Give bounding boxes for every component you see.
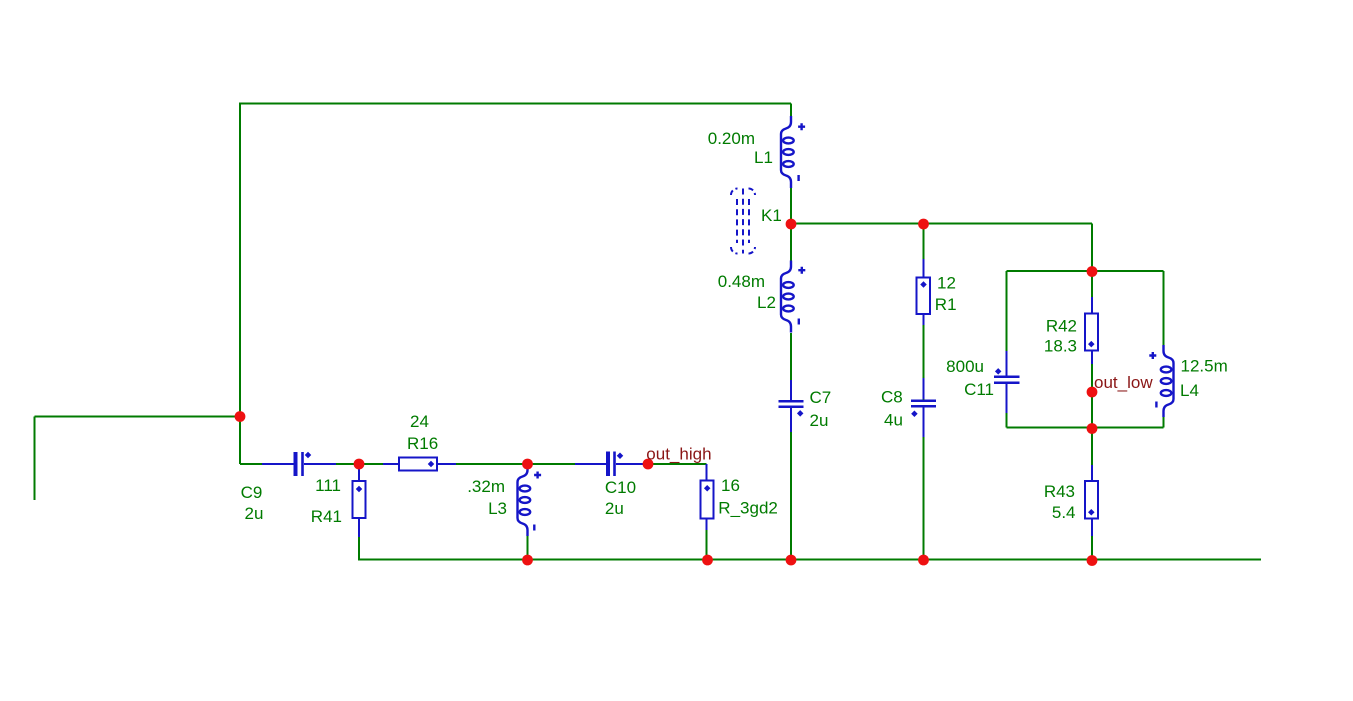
capacitor C8 pins — [923, 378, 925, 399]
wire R1 to C8 — [923, 314, 925, 400]
junction node box bottom — [1087, 423, 1098, 434]
resistor R16 — [399, 458, 437, 471]
svg-text:C8: C8 — [881, 388, 903, 407]
coupling K1 — [731, 189, 755, 254]
capacitor C11 pins — [1006, 351, 1008, 376]
resistor R_3gd2 — [701, 481, 714, 519]
svg-text:C7: C7 — [810, 388, 832, 407]
wire L3 top — [527, 464, 529, 469]
svg-text:18.3: 18.3 — [1044, 337, 1077, 356]
svg-text:out_low: out_low — [1094, 373, 1153, 392]
wire L4 top lead — [1163, 271, 1165, 346]
resistor R43 — [1085, 481, 1098, 519]
wire R42 top lead — [1091, 271, 1093, 314]
wire row C9 left — [240, 463, 294, 465]
wire C11 bottom lead — [1006, 384, 1008, 428]
svg-text:L2: L2 — [757, 293, 776, 312]
wire C8 bottom to rail — [923, 408, 925, 560]
pin1 marker C11 — [995, 368, 1002, 375]
capacitor C7 pins — [790, 380, 792, 400]
resistor R41 pins — [358, 466, 360, 481]
svg-text:5.4: 5.4 — [1052, 503, 1076, 522]
resistor R43 pins — [1091, 465, 1093, 481]
svg-text:0.20m: 0.20m — [708, 129, 755, 148]
svg-text:C9: C9 — [241, 483, 263, 502]
wire R43 top lead — [1091, 428, 1093, 482]
wire node to box top — [1091, 224, 1093, 272]
wire input stub horizontal — [35, 416, 241, 418]
svg-text:R43: R43 — [1044, 482, 1075, 501]
wire L2 to C7 — [790, 333, 792, 400]
wire input stub vertical — [34, 417, 36, 501]
pin1 marker R42 — [1088, 341, 1095, 348]
junction node out_high — [643, 459, 654, 470]
capacitor C9 pins — [262, 463, 294, 465]
resistor R16 pins — [383, 463, 399, 465]
junction node K1 L1-L2 — [786, 219, 797, 230]
pin1 marker R16 — [428, 461, 435, 468]
inductor L2 — [781, 261, 794, 333]
wire C10 to out_high corner — [616, 463, 707, 465]
wire R42 to out_low to box bottom — [1091, 351, 1093, 428]
svg-text:out_high: out_high — [646, 445, 711, 464]
pin1 marker R41 — [356, 486, 363, 493]
pin1 marker C7 — [797, 410, 804, 417]
wire bottom rail — [358, 559, 1261, 561]
wire R41 top lead — [358, 464, 360, 481]
capacitor C11 plates — [994, 377, 1020, 383]
junction node R16-L3 — [522, 459, 533, 470]
plus mark L2 — [798, 267, 805, 274]
wire R_3gd2 bottom to rail — [706, 519, 708, 560]
inductor L1 — [781, 116, 794, 188]
svg-text:C10: C10 — [605, 478, 636, 497]
resistor R1 pins — [923, 259, 925, 278]
svg-text:L4: L4 — [1180, 381, 1199, 400]
wire R_3gd2 top lead — [706, 464, 708, 481]
wire L1 top lead — [790, 104, 792, 118]
minus mark L2 — [798, 319, 800, 325]
pin1 marker C9 — [305, 452, 312, 459]
pin1 marker R_3gd2 — [704, 485, 711, 492]
junction node input — [235, 411, 246, 422]
svg-text:24: 24 — [410, 412, 429, 431]
junction rail C7 — [786, 555, 797, 566]
plus mark L4 — [1149, 352, 1156, 359]
svg-text:R41: R41 — [311, 507, 342, 526]
svg-text:2u: 2u — [605, 499, 624, 518]
wire box bottom horizontal — [1007, 427, 1164, 429]
minus mark L4 — [1155, 402, 1157, 408]
svg-text:R42: R42 — [1046, 317, 1077, 336]
capacitor C9 plates — [296, 452, 303, 476]
junction node R1 top — [918, 219, 929, 230]
svg-text:R16: R16 — [407, 434, 438, 453]
wire C11 top lead — [1006, 271, 1008, 376]
svg-text:0.48m: 0.48m — [718, 272, 765, 291]
svg-text:4u: 4u — [884, 411, 903, 430]
plus mark L1 — [798, 123, 805, 130]
pin1 marker R43 — [1088, 509, 1095, 516]
svg-text:2u: 2u — [810, 411, 829, 430]
wire box top horizontal — [1007, 270, 1164, 272]
svg-text:111: 111 — [315, 476, 341, 495]
minus mark L1 — [797, 175, 799, 181]
inductor L4 — [1161, 345, 1174, 417]
wire C9 to R16 to C10 — [304, 463, 607, 465]
capacitor C7 plates — [779, 401, 804, 407]
junction rail R_3gd2 — [702, 555, 713, 566]
junction rail R43 — [1087, 555, 1098, 566]
wire L1 to K node — [790, 188, 792, 224]
svg-text:L1: L1 — [754, 148, 773, 167]
pin1 marker C10 — [617, 452, 624, 459]
resistor R1 — [917, 278, 931, 315]
capacitor C8 plates — [911, 401, 936, 407]
capacitor C10 plates — [608, 452, 615, 477]
wire L3 bottom to rail — [527, 536, 529, 560]
svg-text:C11: C11 — [964, 380, 994, 399]
capacitor C10 pins — [575, 463, 607, 465]
junction node out_low — [1087, 387, 1098, 398]
wire R1 top lead — [923, 224, 925, 278]
junction rail L3 — [522, 555, 533, 566]
wire C7 bottom to rail — [790, 408, 792, 560]
resistor R_3gd2 pins — [706, 464, 708, 481]
pin1 marker R1 — [920, 281, 927, 288]
svg-text:2u: 2u — [245, 504, 264, 523]
inductor L3 — [518, 464, 531, 536]
junction node box top — [1087, 266, 1098, 277]
wire L4 bottom lead — [1163, 416, 1165, 428]
svg-text:12: 12 — [937, 274, 956, 293]
svg-text:L3: L3 — [488, 499, 507, 518]
svg-text:.32m: .32m — [467, 477, 505, 496]
svg-text:16: 16 — [721, 476, 740, 495]
pin1 marker C8 — [911, 411, 918, 418]
minus mark L3 — [533, 525, 535, 531]
plus mark L3 — [534, 472, 541, 479]
junction rail C8 — [918, 555, 929, 566]
svg-text:R1: R1 — [935, 295, 957, 314]
wire node row horizontal — [791, 223, 1092, 225]
resistor R41 — [353, 481, 366, 518]
wire top horizontal — [240, 103, 791, 105]
resistor R42 pins — [1091, 297, 1093, 314]
svg-text:K1: K1 — [761, 206, 782, 225]
svg-text:R_3gd2: R_3gd2 — [718, 499, 778, 518]
wire L2 top lead — [790, 224, 792, 261]
wire R41 bottom to rail — [358, 518, 360, 560]
wire left vertical — [239, 103, 241, 465]
resistor R42 — [1085, 314, 1098, 351]
svg-text:800u: 800u — [946, 357, 984, 376]
wire R43 bottom to rail — [1091, 519, 1093, 560]
svg-text:12.5m: 12.5m — [1181, 357, 1228, 376]
junction node C9-R41 — [354, 459, 365, 470]
